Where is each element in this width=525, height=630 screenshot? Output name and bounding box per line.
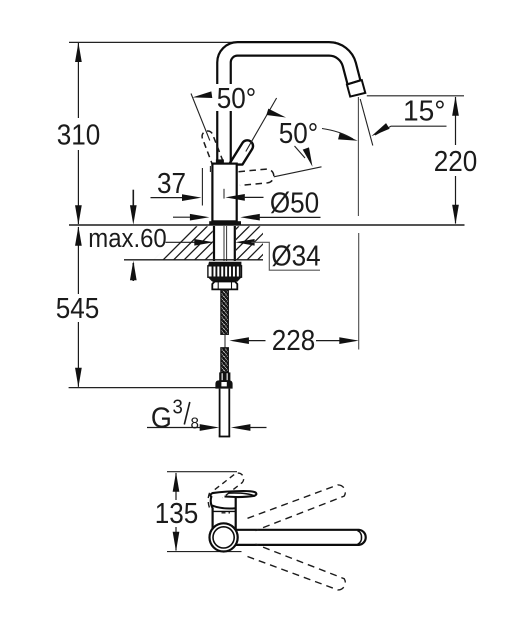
lever axis line L1	[191, 94, 210, 141]
body inner dashes	[222, 512, 231, 514]
15 deg axis line	[360, 99, 373, 146]
slab bottom line	[124, 259, 263, 261]
handle dashed left	[202, 131, 224, 167]
dimension 310	[77, 43, 79, 224]
braided hose upper	[221, 290, 228, 334]
svg-text:15°: 15°	[403, 95, 446, 127]
extension line top	[167, 471, 237, 473]
extension line below counter	[358, 233, 360, 350]
lever solid paddle	[210, 491, 256, 509]
water stream line upper	[357, 97, 359, 216]
arc arrow 50#1 left	[192, 91, 212, 100]
svg-text:37: 37	[157, 167, 186, 200]
handle dashed right	[239, 169, 274, 185]
top reference line	[69, 41, 336, 43]
label diameter 50	[225, 194, 245, 201]
svg-text:228: 228	[272, 324, 316, 357]
lever dashed up position	[208, 473, 244, 507]
svg-text:3: 3	[172, 397, 182, 419]
hose crimp fitting	[219, 372, 230, 381]
leader 50#2 to L3	[295, 146, 306, 158]
flange dimension arrows	[173, 216, 194, 218]
faucet body	[212, 164, 236, 222]
lever axis line L3	[274, 167, 322, 177]
svg-text:max.60: max.60	[88, 224, 166, 253]
swivel ring outer	[210, 523, 238, 551]
max60 upper arrow	[132, 190, 134, 208]
svg-text:545: 545	[56, 292, 100, 325]
hose adapter	[212, 282, 237, 290]
37 extension line	[201, 168, 203, 206]
lever axis line L2	[246, 98, 277, 152]
svg-text:G: G	[151, 401, 172, 433]
arc 50#2 to stream line	[322, 129, 353, 140]
dimension 220	[455, 97, 457, 224]
hose centerline in gap	[224, 334, 226, 348]
handle solid	[229, 140, 253, 164]
mounting nut	[208, 262, 241, 266]
countertop line	[69, 224, 465, 226]
dimension 228	[229, 337, 249, 344]
dimension 135	[175, 473, 177, 551]
swivel ring inner	[213, 527, 234, 548]
label 50 deg #1	[214, 84, 259, 111]
braided hose lower	[221, 348, 228, 373]
mounting shank	[214, 226, 235, 261]
svg-text:Ø34: Ø34	[271, 239, 320, 272]
svg-text:8: 8	[190, 415, 198, 432]
bottom reference line	[69, 387, 216, 389]
svg-text:Ø50: Ø50	[270, 186, 319, 219]
spout dashed upper	[248, 485, 346, 531]
spout tube solid	[236, 530, 366, 545]
svg-text:50°: 50°	[217, 82, 256, 115]
svg-text:135: 135	[155, 497, 199, 530]
extension line bottom	[167, 551, 242, 553]
body centerline	[223, 189, 225, 199]
max60 lower arrow	[132, 263, 134, 281]
spout tube	[217, 42, 360, 164]
cartridge tab	[216, 159, 224, 163]
G3/8 tail pipe	[219, 389, 231, 437]
extension line spout outlet	[367, 95, 464, 97]
label G 3/8	[151, 397, 199, 433]
bottom body	[213, 497, 236, 530]
spout dashed lower	[248, 544, 346, 590]
G3/8 nut	[215, 380, 232, 388]
base flange	[209, 221, 241, 225]
label diameter 34	[235, 239, 255, 246]
svg-text:310: 310	[57, 118, 101, 151]
svg-text:220: 220	[434, 145, 478, 178]
aerator tip	[347, 80, 365, 97]
leader to shank	[166, 241, 199, 243]
G3/8 leader arrows	[147, 427, 204, 429]
dimension 545	[77, 227, 79, 387]
arc arrow 50#1 right	[266, 109, 287, 121]
15 deg leader	[375, 126, 447, 135]
svg-text:50°: 50°	[279, 117, 318, 150]
